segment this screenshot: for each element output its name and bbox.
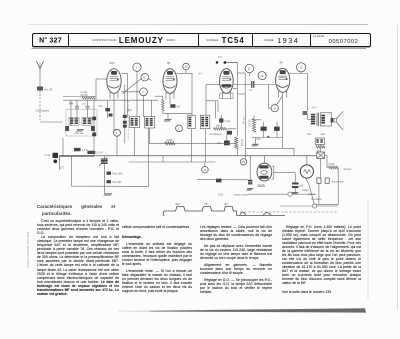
wire node2 left <box>121 91 139 93</box>
node circle 11 <box>245 64 253 72</box>
oscillator box <box>66 110 97 137</box>
column 2 <box>122 225 192 294</box>
wire fuse down <box>320 159 322 179</box>
wire right frame <box>337 168 339 205</box>
wire 245 drop <box>245 108 247 158</box>
node circle 16 <box>258 72 266 80</box>
svg-text:50.000: 50.000 <box>248 120 250 128</box>
svg-text:6A7: 6A7 <box>110 61 116 65</box>
choke AF <box>303 110 308 113</box>
wire V3 anode right <box>233 84 251 86</box>
voltage selector knob <box>53 153 59 158</box>
resistor 50000 bias <box>252 119 255 133</box>
resistor below field coil <box>316 146 325 149</box>
capacitor small blob <box>109 114 113 117</box>
choke 50000 spring <box>234 137 238 149</box>
column 3 <box>200 225 272 294</box>
svg-text:C.T.: C.T. <box>82 104 86 106</box>
ground V2 <box>165 119 172 121</box>
wire 148 line <box>246 148 294 156</box>
rule under header <box>32 48 367 50</box>
capacitor pont 1 <box>107 172 112 175</box>
svg-text:Pont 1MΩ: Pont 1MΩ <box>112 173 123 176</box>
svg-text:P.U.: P.U. <box>218 57 223 59</box>
wire osc left <box>70 100 72 126</box>
wire antenna to oscillator <box>39 91 41 123</box>
node circle 12 <box>297 63 306 72</box>
svg-text:2: 2 <box>142 90 144 94</box>
wire AVC drop <box>124 84 126 143</box>
wire 143 left elbow <box>148 128 150 143</box>
svg-text:43: 43 <box>279 61 283 65</box>
svg-text:6A7: 6A7 <box>176 202 181 206</box>
svg-text:Commutateur: Commutateur <box>36 110 50 113</box>
tube V1 6A7 <box>107 69 121 94</box>
trimmer CT2 <box>86 105 90 107</box>
wire B+ screen <box>171 112 192 114</box>
node circle 14 <box>202 166 209 173</box>
wire node3 to bus <box>116 136 118 156</box>
resistor 20000 <box>82 97 95 99</box>
svg-text:13: 13 <box>273 106 276 110</box>
resistor 1M horizontal <box>214 127 227 130</box>
svg-text:A 110: A 110 <box>45 154 51 157</box>
socket V3 <box>220 93 233 98</box>
svg-text:Lampe cadran: Lampe cadran <box>234 193 249 196</box>
tube V3 75 <box>220 69 234 94</box>
tube V2 78 <box>163 69 177 94</box>
svg-text:25Z5: 25Z5 <box>218 194 224 196</box>
svg-text:43: 43 <box>225 202 229 206</box>
column 1 <box>37 219 119 296</box>
svg-text:78: 78 <box>204 202 208 206</box>
antenna coupling capacitor <box>37 87 43 91</box>
wire resistor top <box>155 95 163 97</box>
wire V5 top <box>263 156 265 163</box>
wire T1 down <box>134 128 136 156</box>
svg-text:14: 14 <box>203 168 206 172</box>
capacitor blob mid <box>227 131 232 135</box>
IF transformer T2 can A <box>188 115 196 129</box>
wire lamp lead <box>306 178 309 185</box>
svg-text:Alim.: Alim. <box>98 105 103 108</box>
wire V4 plate top <box>290 73 308 75</box>
svg-text:11: 11 <box>248 67 251 71</box>
resistor 5000 right <box>329 166 339 169</box>
svg-text:5.000: 5.000 <box>167 140 173 142</box>
phono jacks PU <box>216 61 219 64</box>
svg-text:0,1µF: 0,1µF <box>225 121 232 123</box>
column 1 heading <box>37 203 121 217</box>
rectifier V5 25Z5 <box>257 163 272 181</box>
wire V3 grid left <box>206 84 220 86</box>
chassis socket bump 4 <box>240 212 246 215</box>
svg-text:1MΩ: 1MΩ <box>127 110 132 112</box>
wire T2 B top <box>205 85 207 116</box>
output transformer secondary <box>320 113 331 126</box>
column 4 <box>282 225 361 294</box>
wire x94 drop <box>93 100 95 156</box>
svg-text:Secteur: Secteur <box>344 168 352 171</box>
top scan edge line <box>28 24 368 25</box>
grommet 194 <box>288 192 292 196</box>
pont resistor box 2 <box>87 151 95 154</box>
interrupteur contacts <box>317 178 321 183</box>
volume potentiometer <box>101 159 108 160</box>
wire bias box <box>252 119 261 121</box>
wire node9 stub <box>149 79 152 81</box>
speaker cone <box>334 119 337 122</box>
wire antenna lead <box>39 69 41 86</box>
node circle 9 <box>141 73 149 81</box>
output transformer primary <box>311 114 315 116</box>
node circle 15 <box>240 159 246 165</box>
svg-text:9: 9 <box>143 75 145 79</box>
capacitor bias 2 <box>274 127 280 131</box>
chassis silhouette <box>163 207 285 216</box>
wire AVC detector <box>206 100 218 102</box>
node circle 3 <box>114 129 121 136</box>
svg-text:500: 500 <box>257 139 262 141</box>
capacitor alim <box>105 108 110 111</box>
wire T1 canB right <box>151 100 153 117</box>
wire chassis 212 dashed <box>240 211 337 213</box>
svg-text:haut.: haut. <box>321 133 326 136</box>
ground bias <box>255 138 257 144</box>
node circle 1 <box>133 63 141 71</box>
oscillator coil L2 <box>82 117 92 125</box>
wire V1 anode diagonal <box>123 79 142 94</box>
svg-text:16: 16 <box>261 74 264 78</box>
svg-text:175: 175 <box>60 167 65 169</box>
svg-text:15: 15 <box>242 160 245 164</box>
svg-text:Pont 500: Pont 500 <box>112 181 122 184</box>
coupling coil L3 <box>65 126 69 131</box>
svg-text:4: 4 <box>178 127 180 131</box>
wire pot down <box>103 164 105 193</box>
svg-text:1: 1 <box>136 65 138 69</box>
svg-text:8µF: 8µF <box>300 185 305 187</box>
node circle 13 <box>271 105 278 112</box>
wire node10 stub <box>185 70 187 74</box>
capacitor 0,1uF grid <box>219 118 223 122</box>
chassis socket bump 5 <box>263 213 271 216</box>
coupling coil L4 <box>91 126 95 131</box>
svg-text:A.V.: A.V. <box>199 73 203 76</box>
antenna <box>37 61 44 69</box>
wire chassis 194 <box>248 193 316 195</box>
ground oscillator <box>77 129 84 131</box>
output transformer core <box>316 113 318 126</box>
wire node13 diagonal <box>276 97 282 105</box>
wire PU to osc line <box>226 61 237 63</box>
wire V1 cathode down <box>114 129 117 131</box>
wire selector drop <box>58 156 60 170</box>
mains bus 156 <box>59 155 317 157</box>
wire V1 grid <box>95 79 97 100</box>
svg-text:10: 10 <box>185 65 188 69</box>
svg-text:8µF: 8µF <box>177 107 182 109</box>
wire heater 162 <box>129 161 216 163</box>
wire T2 down <box>191 129 193 162</box>
IF transformer T2 can B <box>200 115 210 129</box>
wire node14 <box>204 162 206 166</box>
svg-text:2x0,1µF: 2x0,1µF <box>242 117 244 126</box>
bracket V5 right <box>272 166 274 179</box>
switch dot <box>267 136 269 138</box>
capacitor pont 2 <box>107 180 112 183</box>
capacitor 2uF <box>224 141 230 146</box>
shield dash <box>127 101 129 140</box>
svg-text:A.F.1: A.F.1 <box>312 106 318 109</box>
node circle 2 <box>140 88 148 96</box>
capacitor 8uF filter <box>292 183 299 185</box>
wire node11 stub <box>248 73 250 76</box>
resistor 5000 on 143 <box>165 142 175 145</box>
svg-text:C.T.: C.T. <box>70 104 74 106</box>
bottom scan wedge <box>0 300 400 339</box>
field coil box <box>315 138 324 144</box>
svg-text:50.000: 50.000 <box>240 139 242 147</box>
svg-text:Exc.: Exc. <box>308 134 313 136</box>
wire coupling to V4 <box>254 84 276 86</box>
resistor R cathode V2 <box>162 100 165 112</box>
wire long vertical 237 <box>236 62 238 136</box>
wire V1 plate top <box>121 72 127 74</box>
dial lamp <box>300 165 313 178</box>
wire screen V4 <box>269 85 272 109</box>
svg-text:3: 3 <box>116 131 118 135</box>
capacitor C cathode V2 <box>170 104 175 107</box>
page rule right <box>367 198 369 300</box>
header box <box>32 33 371 47</box>
ground left <box>104 193 112 195</box>
pont resistor box 1 <box>74 148 81 151</box>
IF transformer T1 can A <box>130 117 140 128</box>
svg-text:2 volts: 2 volts <box>81 91 88 94</box>
wire grid bus <box>63 99 158 101</box>
wire V5 left <box>249 156 251 180</box>
oscillator coil L1 <box>69 117 79 125</box>
svg-text:78: 78 <box>167 61 171 65</box>
svg-text:grille osc.: grille osc. <box>75 132 85 135</box>
ground 8uF <box>292 191 299 193</box>
capacitor input filter <box>248 180 252 181</box>
svg-text:0,1: 0,1 <box>249 90 253 92</box>
grommet 206 <box>312 204 316 208</box>
svg-text:cadran: cadran <box>308 193 316 196</box>
wire chassis 206 <box>280 205 338 207</box>
capacitor 0,1 coupling <box>251 81 253 88</box>
svg-text:Amortisseur: Amortisseur <box>210 133 222 136</box>
wire line 143 <box>149 142 236 144</box>
wire V4 cathode drop <box>282 92 284 148</box>
capacitor bias 1 <box>261 127 267 131</box>
svg-text:5.000: 5.000 <box>329 164 335 166</box>
diode plates V3 <box>222 84 231 87</box>
trimmer CT1 <box>75 105 79 107</box>
svg-text:12: 12 <box>300 66 303 70</box>
svg-text:Lampe: Lampe <box>302 190 310 192</box>
node circle 10 <box>183 63 190 70</box>
wire left loop <box>72 156 149 187</box>
svg-text:Récepteur: Récepteur <box>312 198 323 201</box>
wire lower mid <box>197 179 248 181</box>
svg-text:25Z5: 25Z5 <box>257 184 265 188</box>
svg-text:Ant 250: Ant 250 <box>45 88 54 91</box>
tube V4 43 <box>276 68 290 92</box>
wire V2 plate to screen <box>177 73 192 116</box>
svg-text:0,5 W: 0,5 W <box>96 153 103 155</box>
svg-text:1MΩ: 1MΩ <box>216 125 221 127</box>
node circle 4 <box>176 125 183 132</box>
IF transformer T1 can B <box>145 117 155 129</box>
svg-text:Schema LEMOUZY TC54 1934: Schema LEMOUZY TC54 1934 <box>26 231 30 268</box>
fuse box <box>317 152 325 159</box>
